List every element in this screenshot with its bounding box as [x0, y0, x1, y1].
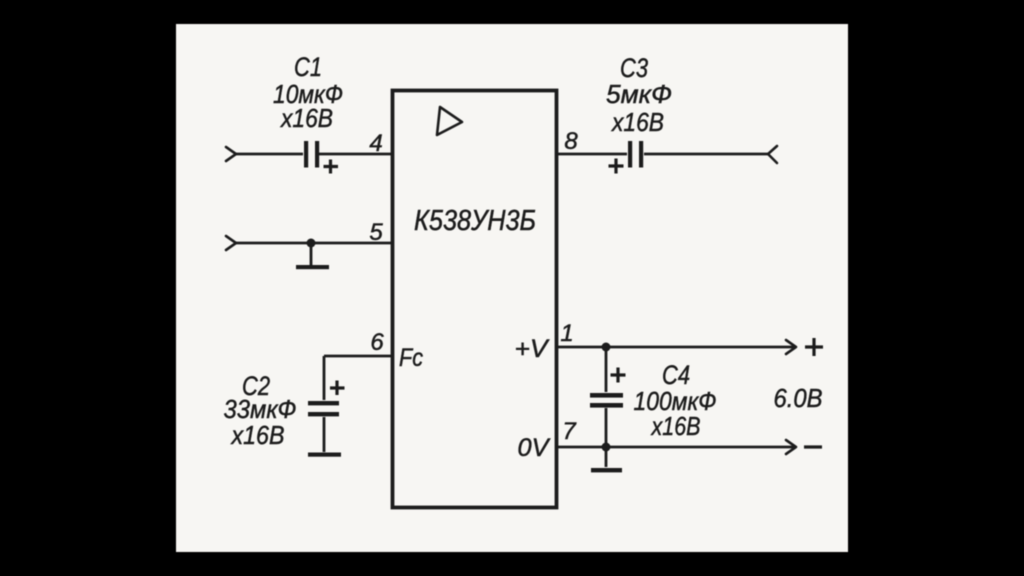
svg-text:x16В: x16В [650, 411, 701, 441]
svg-text:К538УН3Б: К538УН3Б [414, 205, 536, 237]
svg-text:7: 7 [562, 418, 577, 445]
svg-text:4: 4 [369, 130, 382, 157]
svg-text:1: 1 [560, 320, 573, 347]
svg-text:C1: C1 [294, 52, 322, 82]
svg-text:8: 8 [564, 128, 578, 155]
svg-text:0V: 0V [518, 434, 551, 462]
svg-text:x16В: x16В [230, 420, 285, 450]
svg-text:x16В: x16В [610, 107, 664, 137]
svg-text:5: 5 [369, 219, 383, 246]
svg-text:+V: +V [515, 335, 550, 363]
svg-text:6.0В: 6.0В [774, 383, 823, 413]
svg-text:6: 6 [370, 329, 384, 356]
svg-text:Fc: Fc [399, 344, 423, 372]
svg-text:5мкФ: 5мкФ [606, 79, 672, 109]
svg-text:x16В: x16В [279, 103, 333, 133]
